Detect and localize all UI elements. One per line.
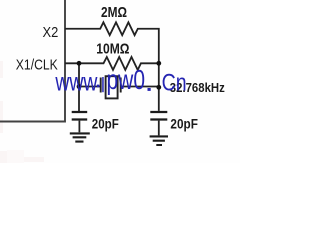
svg-text:pw0: pw0: [107, 64, 146, 95]
svg-text:Cn: Cn: [162, 69, 187, 96]
svg-text:10MΩ: 10MΩ: [96, 40, 129, 57]
svg-text:20pF: 20pF: [92, 115, 119, 131]
svg-text:2MΩ: 2MΩ: [101, 4, 127, 21]
svg-text:X2: X2: [43, 24, 59, 41]
svg-text:www: www: [55, 66, 98, 96]
svg-text:X1/CLK: X1/CLK: [16, 56, 58, 73]
svg-text:20pF: 20pF: [170, 116, 198, 132]
